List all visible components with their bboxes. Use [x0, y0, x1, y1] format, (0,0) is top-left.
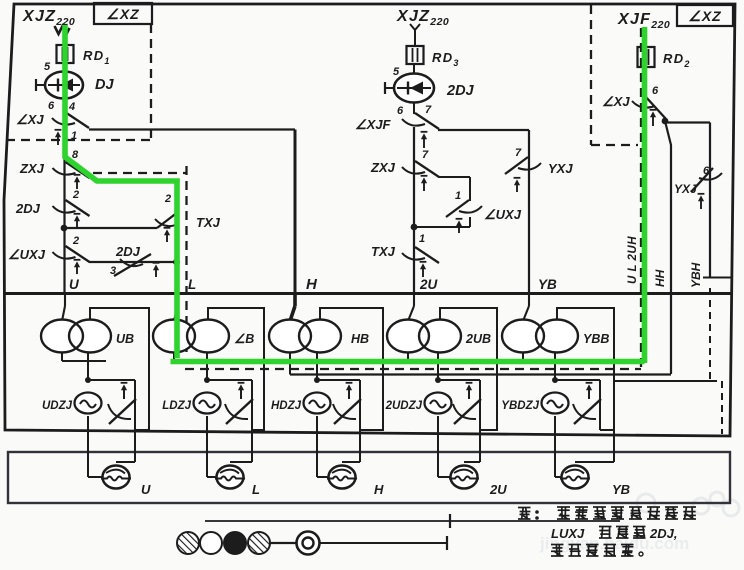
wire relay DJ to contact LXJ	[63, 99, 65, 113]
svg-text:∠UXJ: ∠UXJ	[8, 247, 46, 262]
svg-text:YB: YB	[538, 277, 557, 292]
terminal symbol	[55, 26, 70, 34]
svg-text:UDZJ: UDZJ	[42, 400, 73, 412]
stub to border	[703, 277, 731, 279]
relay YBDZJ	[542, 393, 569, 414]
wire LUXJ back to main	[469, 217, 471, 227]
transformer LB	[153, 320, 195, 353]
svg-text:2: 2	[72, 189, 79, 201]
wire down to ZXJ	[413, 127, 415, 295]
svg-text:L: L	[188, 277, 196, 292]
wire node L to transformer LB	[176, 293, 178, 306]
dashed boundary top-right block	[590, 5, 592, 145]
svg-text:H: H	[306, 276, 318, 293]
svg-text:HH: HH	[653, 269, 667, 287]
fuse RD3	[407, 46, 424, 64]
wire 2DJ-3 branch	[89, 261, 177, 263]
branch to LUXJ	[438, 176, 470, 178]
wire to TXJ branch	[64, 227, 157, 229]
junction	[314, 377, 320, 383]
dashed YBH wire	[709, 288, 711, 381]
note text	[518, 508, 531, 520]
junction	[85, 377, 91, 383]
terminal box LXZ (right)	[677, 5, 733, 26]
transformer 2UB	[387, 320, 429, 353]
transformer UB	[41, 320, 83, 353]
svg-text:L: L	[252, 482, 260, 497]
lamp 2U	[451, 466, 478, 489]
svg-text:2DJ: 2DJ	[115, 244, 141, 259]
wire TXJ up to L route	[176, 180, 178, 212]
svg-text:DJ: DJ	[95, 77, 114, 93]
wire relay to lamp U	[87, 416, 89, 477]
secondary loop box L	[208, 308, 264, 430]
contact 2UDZJ	[454, 399, 481, 424]
wire H transformer to HH	[289, 352, 291, 375]
wire node U to transformer UB	[64, 293, 66, 306]
svg-text:∠XZ: ∠XZ	[688, 8, 721, 24]
secondary loop box U	[90, 308, 149, 430]
contact LDZJ	[226, 399, 253, 424]
contact YBDZJ	[574, 399, 601, 424]
wire node H to transformer HB	[293, 293, 297, 306]
relay HDZJ	[304, 393, 331, 414]
svg-text:LDZJ: LDZJ	[162, 400, 191, 412]
transformer UB bottom leads	[61, 352, 63, 361]
secondary loop box 2U	[440, 308, 497, 430]
wire contact column to lamp	[359, 380, 361, 462]
fuse RD1	[57, 45, 74, 63]
svg-text:HDZJ: HDZJ	[271, 400, 302, 412]
svg-text:TXJ: TXJ	[196, 215, 221, 230]
svg-text:6: 6	[48, 100, 55, 112]
lamp row box	[8, 452, 730, 503]
lamp H	[329, 466, 356, 489]
wire relay to lamp YB	[554, 416, 556, 477]
lamp L	[217, 466, 244, 489]
svg-text:YBB: YBB	[583, 332, 609, 346]
wire relay to lamp 2U	[437, 416, 439, 477]
wire relay to LXJF	[413, 103, 415, 114]
svg-text:1: 1	[71, 130, 77, 142]
terminal symbol	[410, 24, 420, 34]
svg-text:2UDZJ: 2UDZJ	[385, 400, 423, 412]
svg-text:U L 2UH: U L 2UH	[627, 236, 639, 284]
svg-text:2U: 2U	[489, 482, 507, 497]
green highlighted route	[65, 25, 645, 363]
svg-text:HB: HB	[351, 332, 369, 346]
transformer HB	[269, 320, 311, 353]
svg-text:2: 2	[164, 193, 171, 205]
junction	[662, 118, 669, 125]
junction	[204, 377, 210, 383]
wire relay to lamp L	[206, 416, 208, 477]
svg-text:7: 7	[515, 147, 522, 159]
wire contact column to lamp	[479, 380, 481, 462]
wire HH column	[665, 121, 671, 374]
svg-text:2DJ: 2DJ	[446, 83, 475, 99]
relay LDZJ	[194, 393, 221, 414]
junction	[552, 377, 558, 383]
fuse RD2	[638, 47, 655, 67]
transformer 2UB bottom leads	[407, 352, 409, 361]
contact UDZJ	[109, 399, 136, 424]
rotated net label U L 2UH	[627, 236, 639, 284]
svg-text:2U: 2U	[419, 277, 439, 292]
svg-text:ZXJ: ZXJ	[19, 161, 45, 176]
svg-text:6: 6	[652, 85, 659, 97]
wire contact column to lamp	[599, 380, 601, 430]
secondary loop box H	[320, 308, 383, 430]
dashed wire U L 2UH column	[640, 28, 642, 369]
svg-text:7: 7	[422, 149, 429, 161]
wire relay to lamp H	[316, 416, 318, 477]
wire H column down	[294, 130, 297, 294]
svg-text:2DJ,: 2DJ,	[649, 526, 677, 541]
wire L route down	[176, 212, 178, 293]
dashed boundary transformer row	[185, 368, 641, 370]
transformer LB bottom leads	[173, 352, 175, 361]
svg-text:YXJ: YXJ	[548, 161, 573, 176]
svg-text:TXJ: TXJ	[371, 244, 396, 259]
wire LXJF branch to YXJ column	[438, 129, 529, 131]
wire node 2U to transformer 2UB	[413, 293, 415, 306]
svg-text:∠XJ: ∠XJ	[602, 94, 630, 109]
outer border frame	[4, 4, 735, 436]
watermark baidu	[539, 492, 739, 553]
relay 2UDZJ	[425, 393, 452, 414]
svg-text:4: 4	[68, 101, 75, 113]
svg-text:UB: UB	[116, 332, 134, 346]
wire fuse to relay DJ	[63, 63, 65, 72]
wire LXJ to H column	[89, 128, 295, 130]
svg-text:U: U	[141, 482, 151, 497]
svg-text:5: 5	[393, 66, 400, 78]
lamp YB	[562, 466, 589, 489]
junction node	[61, 225, 68, 232]
wire to YXJ right column	[665, 121, 710, 123]
svg-text:YBDZJ: YBDZJ	[501, 400, 539, 412]
svg-text:7: 7	[425, 104, 432, 116]
legend signal heads	[177, 532, 199, 554]
svg-text:5: 5	[44, 61, 51, 73]
svg-text:2DJ: 2DJ	[15, 201, 41, 216]
wire YBH to YB lamp feed	[614, 380, 710, 382]
wire LXJ to ZXJ	[63, 128, 65, 293]
svg-text:∠XZ: ∠XZ	[106, 6, 139, 22]
svg-text:YB: YB	[612, 482, 630, 497]
wire contact column to lamp	[134, 380, 136, 462]
wire node YB to transformer YBB	[528, 293, 530, 306]
rotated net label YBH	[689, 262, 703, 288]
svg-text:8: 8	[72, 149, 79, 161]
svg-text:∠UXJ: ∠UXJ	[484, 207, 522, 222]
transformer YBB bottom leads	[522, 352, 524, 361]
wire to fuse RD3	[414, 33, 416, 47]
transformer HB bottom leads	[289, 352, 291, 361]
dashed boundary contact block	[93, 172, 187, 174]
relay 2DJ	[394, 74, 434, 103]
svg-text:2: 2	[72, 235, 79, 247]
relay DJ	[45, 72, 83, 99]
horizontal bus	[5, 292, 731, 295]
svg-text:YBH: YBH	[689, 262, 703, 288]
lamp U	[103, 466, 130, 489]
rotated net label HH	[653, 269, 667, 287]
dashed boundary top-left block	[150, 24, 152, 141]
transformer YBB	[502, 320, 544, 353]
svg-text:∠XJ: ∠XJ	[16, 112, 44, 127]
terminal box LXZ (left)	[94, 3, 152, 24]
legend mast line	[205, 520, 620, 522]
svg-text:H: H	[374, 482, 384, 497]
relay UDZJ	[75, 393, 102, 414]
wire XJZ220 to fuse RD1	[63, 32, 65, 46]
svg-text:ZXJ: ZXJ	[370, 160, 396, 175]
secondary loop box YB	[557, 308, 614, 430]
svg-text:∠B: ∠B	[234, 332, 254, 346]
svg-text:1: 1	[419, 233, 425, 245]
svg-text:2UB: 2UB	[465, 332, 491, 346]
svg-text:6: 6	[397, 105, 404, 117]
svg-text:1: 1	[455, 190, 461, 202]
wire contact column to lamp	[251, 380, 253, 462]
junction	[435, 377, 441, 383]
svg-text:LUXJ: LUXJ	[551, 526, 585, 541]
svg-text:U: U	[69, 277, 80, 292]
contact HDZJ	[334, 399, 361, 424]
svg-text:∠XJF: ∠XJF	[355, 117, 392, 132]
